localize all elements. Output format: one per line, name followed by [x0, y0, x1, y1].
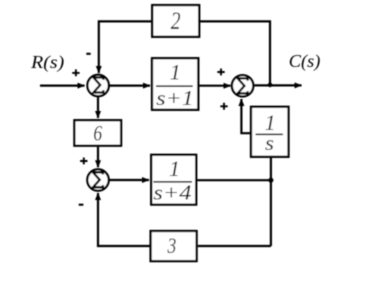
svg-text:s+4: s+4	[153, 180, 192, 204]
svg-text:2: 2	[171, 8, 181, 35]
svg-text:s+1: s+1	[156, 86, 194, 110]
svg-text:C(s): C(s)	[289, 51, 321, 72]
svg-text:3: 3	[167, 233, 177, 258]
svg-text:1: 1	[169, 156, 180, 181]
svg-text:6: 6	[93, 121, 102, 146]
svg-text:1: 1	[170, 60, 181, 85]
svg-text:R(s): R(s)	[30, 52, 64, 73]
